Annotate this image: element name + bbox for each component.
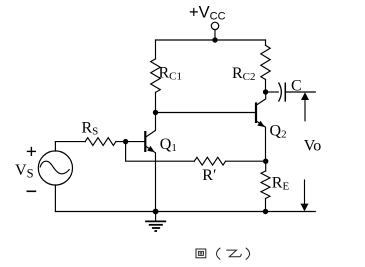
ground: [145, 212, 166, 232]
label plus sign: [27, 147, 36, 156]
junction dot RC1/Q2 base node: [153, 110, 158, 115]
wire Vs top stub: [54, 142, 56, 152]
wire collector node to capacitor: [266, 91, 279, 93]
wire RE bottom: [265, 199, 267, 212]
capacitor C: [279, 83, 286, 102]
svg-text:Q1: Q1: [160, 136, 177, 154]
svg-text:R′: R′: [202, 167, 216, 184]
junction dot RE ground node: [263, 209, 268, 214]
label minus sign: [27, 190, 37, 192]
resistor RC2: [261, 45, 270, 79]
transistor Q1: [145, 113, 155, 212]
power terminal +VCC: [211, 22, 218, 40]
arrow Vo bottom: [301, 180, 309, 211]
caption figure (yi): [196, 248, 250, 260]
svg-text:+VCC: +VCC: [189, 4, 226, 23]
svg-text:VS: VS: [15, 162, 34, 181]
resistor RE top wire: [265, 161, 267, 171]
svg-text:RC1: RC1: [159, 65, 183, 83]
wire Vs bottom stub: [54, 185, 56, 212]
transistor Q2: [256, 92, 266, 161]
resistor RS: [85, 138, 116, 146]
svg-text:RS: RS: [82, 120, 99, 138]
resistor RE: [261, 171, 270, 199]
junction dot VCC node: [212, 37, 217, 42]
wire Rs to Q1 base: [116, 141, 145, 143]
wire Vs to Rs: [55, 141, 85, 143]
wire RC1 bottom: [155, 92, 157, 112]
svg-text:Q2: Q2: [270, 123, 287, 141]
wire top rail: [156, 39, 266, 41]
wire RC2 top: [265, 40, 267, 45]
source VS: [38, 151, 72, 185]
wire feedback from base node down: [126, 142, 195, 162]
wire RC2 bottom: [265, 80, 267, 93]
junction dot ground node: [153, 209, 159, 215]
wire Rprime to Q2 emitter node: [226, 160, 266, 162]
wire bottom rail: [55, 211, 315, 213]
wire collector node to Q2 base: [156, 112, 256, 114]
wire RC1 top: [155, 40, 157, 59]
resistor RC1: [151, 59, 161, 93]
junction dot Q1 base node: [123, 139, 128, 144]
resistor Rprime: [194, 157, 225, 165]
junction dot Q2 emitter node: [263, 159, 268, 164]
arrow Vo top: [301, 92, 309, 121]
svg-text:RE: RE: [272, 175, 290, 193]
svg-text:Vo: Vo: [304, 137, 322, 154]
junction dot Q2 collector node: [263, 89, 268, 94]
svg-text:RC2: RC2: [232, 65, 256, 83]
wire capacitor to output: [285, 91, 315, 93]
